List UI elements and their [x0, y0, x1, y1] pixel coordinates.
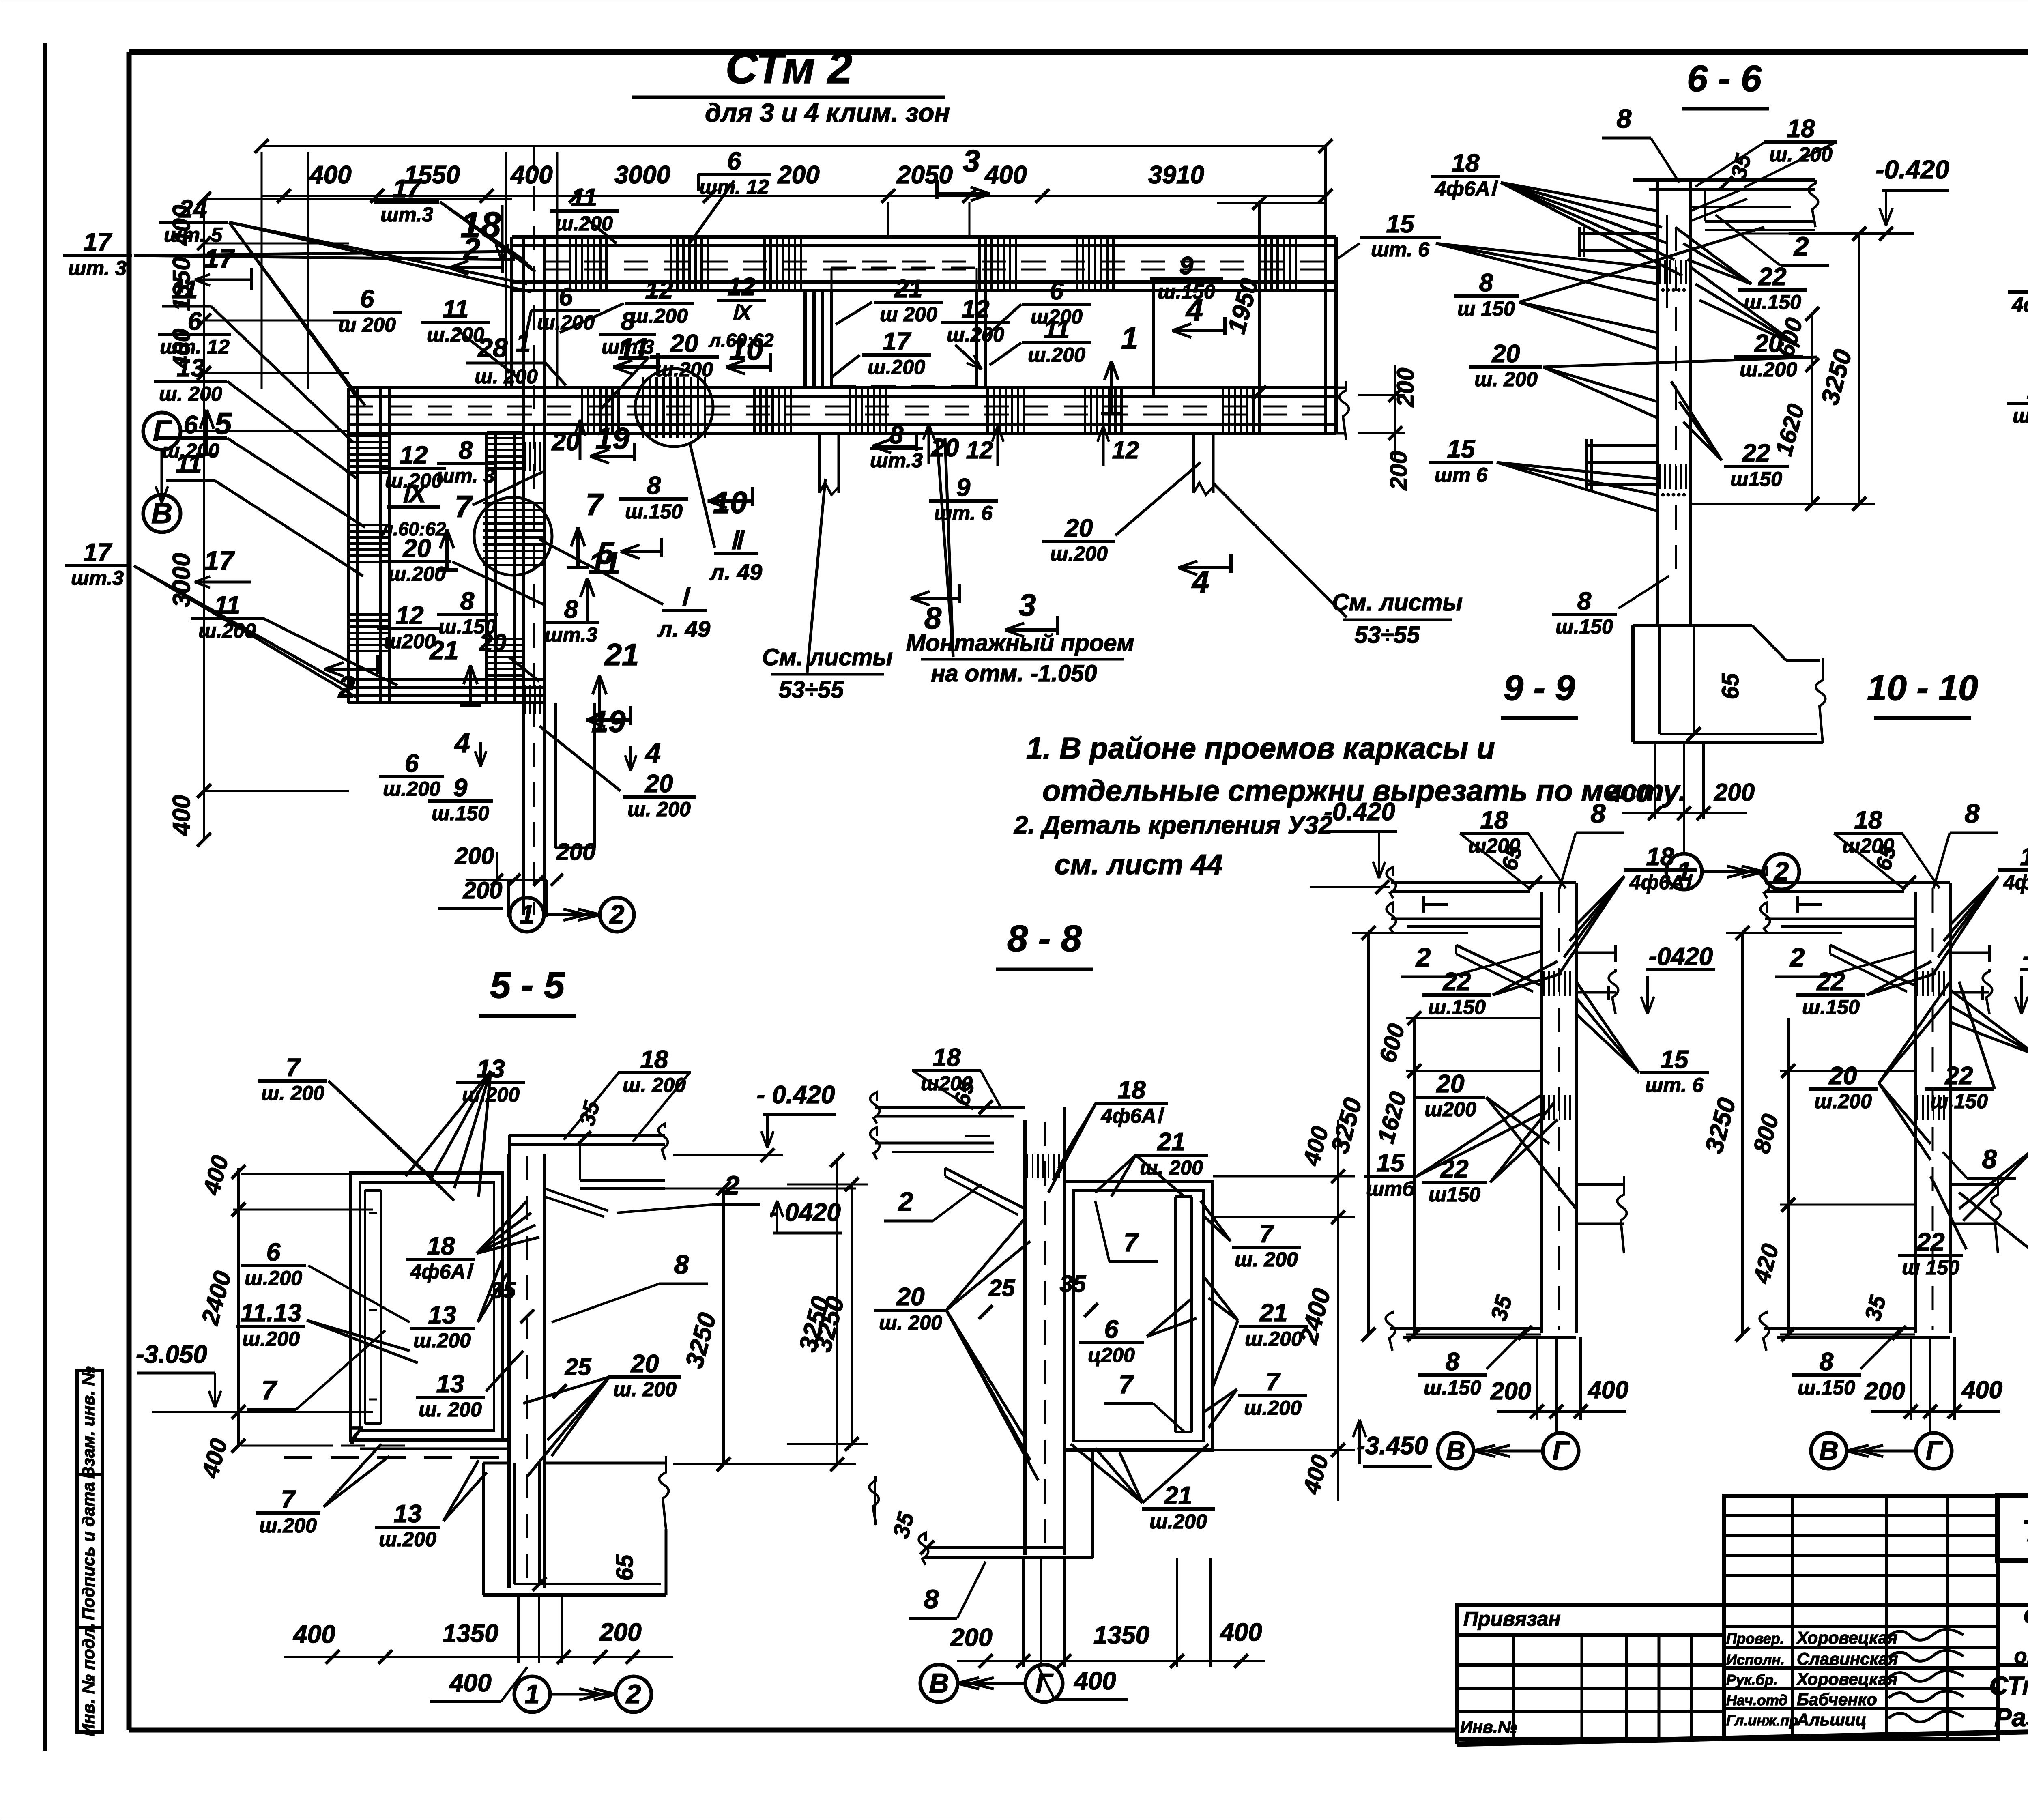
svg-text:-3.050: -3.050: [136, 1341, 207, 1369]
svg-text:ш. 200: ш. 200: [627, 798, 691, 821]
svg-text:400: 400: [1219, 1618, 1262, 1646]
svg-text:-3.450: -3.450: [1357, 1432, 1428, 1460]
svg-text:22: 22: [1817, 968, 1845, 996]
svg-text:шт. 6: шт. 6: [1645, 1074, 1704, 1096]
svg-text:ш.200: ш.200: [655, 358, 713, 381]
svg-text:-0420: -0420: [2023, 943, 2028, 971]
svg-text:4: 4: [454, 728, 470, 759]
svg-text:В: В: [1446, 1435, 1465, 1465]
svg-text:200: 200: [599, 1618, 641, 1646]
svg-text:См. листы: См. листы: [1332, 589, 1463, 616]
svg-text:ш. 200: ш. 200: [1474, 368, 1538, 391]
svg-text:18: 18: [1854, 806, 1882, 834]
svg-text:8: 8: [924, 1584, 939, 1614]
svg-text:шт.3: шт.3: [870, 449, 923, 472]
svg-text:6: 6: [188, 307, 202, 335]
svg-text:ш.200: ш.200: [1244, 1397, 1302, 1419]
svg-text:Привязан: Привязан: [1463, 1607, 1561, 1630]
svg-text:шт. 5: шт. 5: [164, 223, 223, 246]
svg-text:12: 12: [962, 295, 990, 323]
svg-text:10 - 10: 10 - 10: [1867, 668, 1978, 708]
svg-text:ш.150: ш.150: [1930, 1090, 1988, 1113]
svg-text:ш. 200: ш. 200: [159, 382, 222, 405]
svg-text:для 3 и 4 клим. зон: для 3 и 4 клим. зон: [705, 98, 950, 127]
svg-text:2: 2: [1789, 942, 1805, 972]
svg-text:шт.3: шт.3: [545, 623, 597, 646]
svg-text:ш. 200: ш. 200: [613, 1378, 677, 1401]
svg-text:8: 8: [1820, 1348, 1834, 1376]
svg-text:отдельно стоящий: отдельно стоящий: [2014, 1644, 2028, 1668]
svg-text:1: 1: [1121, 321, 1138, 356]
svg-text:См. листы: См. листы: [762, 644, 893, 670]
svg-text:Подпись и дата: Подпись и дата: [79, 1482, 98, 1620]
svg-text:200: 200: [1386, 451, 1412, 491]
svg-text:4ф6АⅠ: 4ф6АⅠ: [410, 1260, 474, 1283]
svg-text:ⅠX: ⅠX: [402, 480, 427, 508]
svg-text:12: 12: [396, 602, 424, 630]
svg-text:17: 17: [84, 539, 112, 567]
svg-text:Монтажный проем: Монтажный проем: [906, 630, 1134, 656]
svg-text:ш200: ш200: [384, 630, 436, 653]
svg-text:Рук.бр.: Рук.бр.: [1726, 1672, 1778, 1688]
svg-text:21: 21: [429, 636, 458, 665]
svg-text:7: 7: [1266, 1368, 1281, 1396]
svg-text:18: 18: [1480, 806, 1508, 834]
svg-text:18: 18: [1646, 843, 1674, 871]
svg-text:ш.200: ш.200: [1050, 542, 1108, 565]
svg-text:8: 8: [1479, 269, 1493, 297]
svg-text:СТм 2. Армирование.: СТм 2. Армирование.: [1989, 1671, 2028, 1700]
svg-text:17: 17: [204, 546, 235, 576]
svg-text:ш.200: ш.200: [242, 1328, 300, 1350]
svg-text:400: 400: [1073, 1667, 1116, 1695]
svg-text:7: 7: [262, 1375, 278, 1405]
svg-text:13: 13: [428, 1301, 456, 1329]
svg-text:8: 8: [459, 436, 473, 464]
svg-text:ш 150: ш 150: [1902, 1256, 1959, 1279]
svg-text:6: 6: [559, 283, 573, 311]
svg-text:ш150: ш150: [1730, 468, 1782, 490]
svg-text:7: 7: [348, 1422, 363, 1450]
svg-text:18: 18: [2020, 843, 2028, 871]
svg-text:ш 200: ш 200: [880, 303, 937, 326]
svg-text:400: 400: [1961, 1376, 2002, 1403]
svg-text:200: 200: [1714, 779, 1755, 806]
svg-text:11: 11: [1044, 316, 1070, 344]
svg-text:200: 200: [777, 161, 819, 189]
svg-text:7: 7: [286, 1054, 301, 1082]
svg-text:шт. 3: шт. 3: [436, 464, 495, 487]
svg-text:ТП А-Ⅱ-600-338.86: ТП А-Ⅱ-600-338.86: [2022, 1514, 2028, 1548]
svg-text:Нач.отд: Нач.отд: [1726, 1692, 1787, 1708]
svg-text:СТм 2: СТм 2: [726, 43, 853, 93]
svg-text:ш.150: ш.150: [1798, 1376, 1855, 1399]
svg-text:65: 65: [612, 1554, 638, 1581]
svg-text:18: 18: [933, 1044, 961, 1072]
svg-text:20: 20: [670, 330, 698, 358]
svg-text:шт. 3: шт. 3: [68, 257, 127, 279]
svg-text:Разрезы 5-5÷ 11- 11.: Разрезы 5-5÷ 11- 11.: [1994, 1703, 2028, 1732]
svg-text:2: 2: [609, 899, 625, 929]
svg-text:8: 8: [674, 1249, 689, 1279]
svg-text:21: 21: [894, 275, 923, 303]
svg-text:200: 200: [950, 1624, 992, 1652]
svg-text:12: 12: [400, 441, 428, 469]
svg-text:200: 200: [1864, 1377, 1905, 1405]
svg-text:4ф6АⅠ: 4ф6АⅠ: [1629, 871, 1693, 894]
svg-text:18: 18: [1787, 115, 1815, 143]
svg-text:400: 400: [449, 1669, 491, 1697]
svg-text:Взам. инв. №: Взам. инв. №: [79, 1366, 98, 1478]
svg-text:5: 5: [215, 406, 232, 441]
svg-text:Альшиц: Альшиц: [1796, 1710, 1867, 1729]
svg-text:11.13: 11.13: [241, 1299, 302, 1327]
svg-text:6: 6: [405, 750, 419, 778]
svg-text:ш.150: ш.150: [432, 802, 489, 825]
svg-text:35: 35: [490, 1277, 516, 1303]
svg-text:ш.200: ш.200: [630, 305, 688, 327]
svg-text:10: 10: [713, 486, 748, 520]
svg-text:18: 18: [1452, 149, 1480, 177]
svg-text:ш.200: ш.200: [1149, 1510, 1207, 1533]
svg-text:65: 65: [1717, 673, 1744, 699]
svg-text:4ф6АⅠ: 4ф6АⅠ: [2003, 871, 2028, 894]
svg-text:ш.150: ш.150: [1555, 615, 1613, 638]
svg-text:5: 5: [597, 536, 615, 571]
svg-text:-0420: -0420: [1649, 943, 1713, 971]
svg-text:ш. 200: ш. 200: [419, 1398, 482, 1421]
svg-text:2: 2: [462, 232, 480, 266]
svg-text:17: 17: [883, 328, 911, 356]
svg-text:20: 20: [479, 629, 507, 656]
svg-text:Инв. № подл.: Инв. № подл.: [79, 1623, 98, 1736]
svg-text:200: 200: [455, 843, 494, 869]
svg-text:8: 8: [647, 472, 661, 500]
svg-text:2: 2: [625, 1679, 641, 1709]
svg-text:ш 200: ш 200: [338, 314, 396, 336]
svg-text:ш.150: ш.150: [625, 500, 683, 523]
svg-text:15: 15: [1386, 210, 1415, 238]
svg-text:ш.200: ш.200: [259, 1514, 317, 1537]
svg-text:12: 12: [728, 273, 756, 301]
svg-text:Славинская: Славинская: [1797, 1649, 1898, 1668]
svg-text:3: 3: [963, 144, 980, 178]
svg-text:см. лист 44: см. лист 44: [1055, 849, 1222, 880]
svg-text:4ф6АⅠ: 4ф6АⅠ: [1101, 1104, 1164, 1127]
svg-text:ш.200: ш.200: [198, 619, 256, 642]
svg-text:Бабченко: Бабченко: [1797, 1690, 1877, 1709]
svg-text:400: 400: [1608, 780, 1649, 807]
svg-text:8: 8: [1965, 798, 1980, 828]
svg-text:ш. 200: ш. 200: [623, 1074, 686, 1096]
svg-text:2: 2: [1415, 942, 1431, 972]
svg-text:11: 11: [443, 295, 468, 323]
svg-text:20: 20: [1829, 1062, 1857, 1090]
svg-text:22: 22: [1742, 439, 1770, 467]
svg-text:2: 2: [724, 1170, 740, 1200]
svg-text:24: 24: [179, 195, 207, 223]
svg-text:ш. 200: ш. 200: [475, 365, 538, 388]
svg-text:400: 400: [309, 161, 351, 189]
svg-text:400: 400: [1588, 1376, 1628, 1403]
svg-text:8 - 8: 8 - 8: [1007, 918, 1082, 959]
svg-text:20: 20: [1492, 340, 1520, 368]
svg-text:2: 2: [1793, 231, 1809, 261]
svg-text:8: 8: [889, 421, 904, 449]
svg-text:В: В: [1819, 1435, 1839, 1465]
svg-text:7: 7: [281, 1486, 296, 1514]
svg-text:Исполн.: Исполн.: [1726, 1651, 1785, 1668]
svg-text:12: 12: [645, 276, 673, 304]
svg-text:19: 19: [591, 705, 626, 739]
svg-text:1: 1: [520, 899, 535, 929]
svg-text:шт. 12: шт. 12: [699, 176, 769, 198]
svg-text:л. 49: л. 49: [657, 616, 710, 642]
svg-text:Г: Г: [1035, 1668, 1054, 1699]
svg-text:1: 1: [525, 1679, 540, 1709]
svg-text:21: 21: [604, 638, 639, 672]
svg-text:22: 22: [1758, 263, 1787, 291]
svg-text:18: 18: [1118, 1076, 1146, 1104]
svg-text:8: 8: [1617, 103, 1632, 133]
svg-text:ш.150: ш.150: [1802, 996, 1860, 1019]
svg-text:ц200: ц200: [1088, 1344, 1135, 1367]
svg-text:11: 11: [571, 184, 597, 212]
svg-text:1. В районе проемов каркасы и: 1. В районе проемов каркасы и: [1026, 731, 1495, 765]
svg-text:-0.420: -0.420: [1875, 155, 1949, 184]
svg-text:штб: штб: [1366, 1178, 1416, 1200]
svg-text:3910: 3910: [1148, 161, 1204, 189]
svg-text:10: 10: [729, 332, 764, 367]
svg-text:11: 11: [214, 591, 240, 619]
svg-text:8: 8: [1591, 798, 1606, 828]
svg-text:13: 13: [436, 1370, 464, 1398]
svg-text:шт 6: шт 6: [1435, 464, 1488, 486]
svg-text:4ф6АⅠ: 4ф6АⅠ: [2012, 293, 2028, 316]
svg-text:шт.3: шт.3: [71, 567, 124, 589]
svg-text:ш.200: ш.200: [1245, 1328, 1302, 1350]
svg-text:35: 35: [1060, 1271, 1086, 1297]
svg-text:6: 6: [727, 147, 741, 175]
svg-text:ш.150: ш.150: [1744, 291, 1801, 314]
svg-text:25: 25: [988, 1275, 1015, 1301]
svg-text:ш.200: ш.200: [555, 212, 613, 235]
svg-text:ш.200: ш.200: [868, 356, 925, 378]
svg-text:8: 8: [621, 307, 635, 335]
svg-text:ⅠX: ⅠX: [732, 301, 752, 324]
svg-text:1350: 1350: [1093, 1621, 1149, 1649]
svg-text:1350: 1350: [443, 1620, 498, 1648]
svg-text:21: 21: [1259, 1299, 1288, 1327]
svg-text:11: 11: [618, 332, 650, 367]
svg-text:5 - 5: 5 - 5: [490, 965, 565, 1006]
svg-text:3: 3: [1019, 588, 1036, 623]
svg-text:13: 13: [177, 354, 205, 382]
svg-text:ш.200: ш.200: [245, 1267, 302, 1289]
svg-text:4: 4: [644, 738, 661, 769]
svg-text:18: 18: [427, 1232, 455, 1260]
svg-text:6: 6: [1050, 277, 1064, 305]
svg-text:400: 400: [984, 161, 1027, 189]
svg-text:- 0420: - 0420: [769, 1199, 841, 1227]
svg-text:7: 7: [586, 488, 604, 522]
svg-text:7: 7: [1259, 1220, 1274, 1248]
svg-text:20: 20: [1436, 1070, 1465, 1098]
svg-text:7: 7: [455, 490, 473, 524]
svg-text:ш. 200: ш. 200: [261, 1082, 324, 1104]
svg-text:200: 200: [463, 877, 503, 904]
svg-text:7: 7: [1119, 1370, 1134, 1399]
svg-text:ш.200: ш.200: [1028, 344, 1085, 366]
svg-text:22: 22: [1916, 1228, 1945, 1256]
svg-text:-0.420: -0.420: [1324, 798, 1395, 826]
svg-text:400: 400: [168, 795, 195, 836]
svg-text:ш.200: ш.200: [413, 1329, 471, 1352]
svg-text:ш 150: ш 150: [1457, 297, 1515, 320]
svg-text:ш.150: ш.150: [1428, 996, 1486, 1019]
svg-text:2: 2: [337, 670, 355, 705]
svg-text:Г: Г: [1553, 1435, 1570, 1465]
svg-text:25: 25: [565, 1354, 591, 1380]
svg-text:15: 15: [1661, 1046, 1689, 1074]
svg-text:ш.200: ш.200: [427, 323, 484, 346]
svg-text:Провер.: Провер.: [1726, 1630, 1784, 1647]
svg-text:20: 20: [896, 1283, 925, 1311]
svg-text:6: 6: [266, 1238, 281, 1266]
svg-text:18: 18: [640, 1046, 668, 1074]
svg-text:12: 12: [1112, 436, 1139, 464]
svg-text:22: 22: [1945, 1062, 1973, 1090]
svg-text:2050: 2050: [896, 161, 953, 189]
svg-text:8: 8: [1446, 1348, 1460, 1376]
svg-text:ш200: ш200: [1424, 1098, 1476, 1121]
svg-text:Хоровецкая: Хоровецкая: [1796, 1670, 1897, 1689]
svg-text:6: 6: [184, 411, 198, 439]
svg-text:4: 4: [1191, 565, 1209, 599]
svg-text:Гл.инж.пр: Гл.инж.пр: [1726, 1712, 1798, 1729]
svg-text:15: 15: [1447, 435, 1476, 463]
svg-text:8: 8: [460, 587, 475, 615]
svg-text:ш.200: ш.200: [1740, 358, 1797, 381]
svg-text:20: 20: [1065, 514, 1093, 542]
svg-text:Инв.№: Инв.№: [1460, 1717, 1517, 1736]
svg-text:4ф6АⅠ: 4ф6АⅠ: [1435, 177, 1498, 200]
svg-text:21: 21: [1164, 1482, 1192, 1510]
svg-text:ш. 200: ш. 200: [1769, 143, 1833, 166]
svg-text:15: 15: [1377, 1149, 1405, 1177]
svg-text:6: 6: [360, 285, 374, 313]
svg-text:17: 17: [204, 243, 235, 273]
svg-text:21: 21: [1157, 1128, 1186, 1156]
svg-text:9 - 9: 9 - 9: [1504, 668, 1575, 708]
svg-text:9: 9: [956, 474, 971, 502]
svg-text:1: 1: [516, 328, 531, 358]
svg-text:2. Деталь крепления У32: 2. Деталь крепления У32: [1014, 811, 1332, 839]
svg-text:ш.200: ш.200: [379, 1528, 436, 1551]
svg-text:- 0.420: - 0.420: [756, 1081, 835, 1109]
svg-text:20: 20: [403, 535, 431, 563]
svg-text:6: 6: [1104, 1315, 1119, 1343]
svg-text:6 - 6: 6 - 6: [1687, 58, 1762, 99]
svg-text:2: 2: [898, 1186, 913, 1216]
svg-text:ш. 200: ш. 200: [879, 1311, 942, 1334]
svg-text:ш.200: ш.200: [1814, 1090, 1872, 1113]
svg-text:17: 17: [393, 175, 422, 203]
svg-text:8: 8: [1577, 587, 1592, 615]
svg-text:53÷55: 53÷55: [1355, 622, 1420, 648]
svg-text:7: 7: [1124, 1228, 1139, 1257]
svg-text:3000: 3000: [614, 161, 670, 189]
svg-text:на отм. -1.050: на отм. -1.050: [931, 660, 1097, 687]
svg-text:28: 28: [477, 333, 508, 363]
svg-text:шт.3: шт.3: [380, 203, 433, 226]
svg-text:Склад материалов: Склад материалов: [2024, 1605, 2028, 1628]
svg-text:ш.200: ш.200: [383, 778, 440, 800]
svg-text:8: 8: [564, 595, 578, 623]
svg-text:9: 9: [1179, 252, 1194, 280]
svg-text:200: 200: [556, 839, 596, 865]
svg-text:ш.200: ш.200: [2013, 404, 2028, 427]
svg-text:л. 49: л. 49: [709, 559, 762, 585]
svg-text:9: 9: [453, 774, 468, 802]
svg-text:400: 400: [292, 1620, 335, 1648]
svg-text:ш.150: ш.150: [1424, 1376, 1481, 1399]
svg-text:200: 200: [1490, 1377, 1531, 1405]
svg-text:17: 17: [84, 228, 112, 256]
svg-text:13: 13: [394, 1500, 422, 1528]
svg-text:В: В: [929, 1668, 949, 1699]
svg-text:Хоровецкая: Хоровецкая: [1796, 1628, 1897, 1647]
svg-text:4: 4: [1185, 293, 1203, 327]
svg-text:ш150: ш150: [1429, 1183, 1480, 1206]
svg-text:20: 20: [645, 770, 673, 798]
svg-text:12: 12: [966, 436, 993, 464]
svg-text:400: 400: [510, 161, 552, 189]
svg-text:200: 200: [1392, 368, 1419, 408]
svg-text:11: 11: [176, 450, 202, 478]
svg-text:8: 8: [1982, 1144, 1997, 1174]
svg-text:ш.200: ш.200: [388, 563, 446, 585]
svg-text:53÷55: 53÷55: [779, 677, 844, 703]
svg-text:шт. 6: шт. 6: [1371, 238, 1430, 261]
svg-text:Г: Г: [1926, 1435, 1943, 1465]
svg-text:19: 19: [595, 421, 630, 456]
svg-text:ш. 200: ш. 200: [1235, 1248, 1298, 1271]
svg-text:22: 22: [1443, 968, 1471, 996]
svg-text:11: 11: [172, 276, 198, 304]
svg-text:20: 20: [631, 1350, 659, 1378]
svg-text:22: 22: [1440, 1155, 1469, 1183]
